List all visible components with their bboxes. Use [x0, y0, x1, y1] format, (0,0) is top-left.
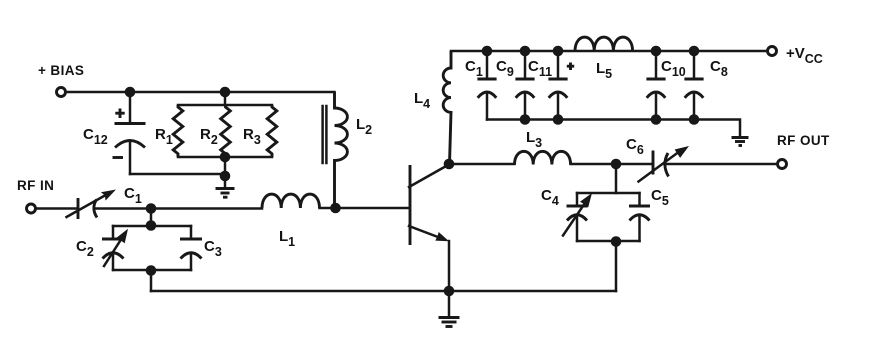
capacitor C9	[515, 51, 534, 120]
wire bank bottom rail	[487, 120, 740, 137]
capacitor C10	[646, 51, 665, 120]
inductor L1	[262, 194, 320, 208]
node bias/C12 junction	[125, 87, 136, 98]
wire R bottom to ground junction	[224, 157, 227, 176]
node C11 top	[553, 46, 564, 57]
capacitor C1 bypass	[477, 51, 496, 120]
wire R network bottom rail	[178, 156, 272, 159]
node RF line tap	[146, 203, 157, 214]
ground G1	[216, 176, 235, 197]
resistor R3	[267, 105, 277, 157]
node C9 top	[520, 46, 531, 57]
terminal +VCC	[768, 47, 777, 56]
node collector	[444, 159, 455, 170]
node C2C3 bottom	[146, 265, 157, 276]
terminal RF OUT	[778, 160, 787, 169]
capacitor C12	[113, 92, 146, 174]
node R bottom	[220, 152, 231, 163]
wire C6 to RF OUT	[666, 163, 778, 166]
capacitor C6 variable	[639, 146, 690, 182]
wire tap to box	[150, 209, 153, 227]
capacitor C2 variable	[102, 226, 128, 270]
ground G3	[732, 138, 749, 146]
node output tap	[611, 159, 622, 170]
node ground junction	[220, 171, 231, 182]
capacitor C8	[684, 51, 703, 120]
node C10 bottom	[651, 114, 662, 125]
wire C12 to ground junction	[130, 173, 225, 176]
terminal +BIAS	[57, 88, 66, 97]
inductor L4	[443, 51, 451, 164]
node L2/L1/base junction	[330, 203, 341, 214]
wire R2 top stem	[224, 92, 227, 105]
capacitor C1 input variable	[67, 190, 117, 220]
wire L1 to base	[320, 207, 409, 210]
transistor Q1	[409, 165, 449, 245]
svg-text:RF OUT: RF OUT	[777, 133, 830, 148]
node C10 top	[651, 46, 662, 57]
node C9 bottom	[520, 114, 531, 125]
wire R network top rail	[178, 104, 272, 107]
wire Vcc rail	[451, 50, 768, 53]
node emitter ground junction	[444, 286, 455, 297]
wire C2C3 bottom rail	[113, 269, 191, 272]
wire tap drop	[615, 164, 618, 193]
terminal RF IN	[27, 204, 36, 213]
svg-text:+ BIAS: + BIAS	[38, 63, 84, 78]
wire box bottom drop	[150, 271, 153, 292]
wire RF IN lead	[36, 207, 78, 210]
wire L3 to C6	[571, 163, 653, 166]
wire bottom ground rail	[151, 290, 616, 293]
wire emitter drop	[448, 241, 451, 291]
resistor R2	[221, 105, 231, 157]
wire C4C5 bottom drop	[615, 242, 618, 292]
wire collector line	[449, 163, 515, 166]
ground G2	[439, 291, 460, 327]
wire bias rail	[66, 91, 335, 94]
wire C4C5 top rail	[577, 192, 640, 195]
wire C4C5 bottom rail	[577, 240, 640, 243]
node C8 top	[689, 46, 700, 57]
node C11 bottom	[553, 114, 564, 125]
wire C1 to tap node	[95, 207, 263, 210]
node C2C3 box top	[146, 220, 157, 231]
inductor L2	[323, 92, 348, 207]
node C4C5 bottom	[611, 236, 622, 247]
capacitor C4 variable	[563, 193, 592, 241]
wire C2C3 top rail	[113, 225, 191, 228]
capacitor C3	[180, 226, 202, 270]
node C8 bottom	[689, 114, 700, 125]
svg-text:RF IN: RF IN	[17, 178, 54, 193]
node bias/R2 junction	[220, 87, 231, 98]
capacitor C5	[629, 193, 650, 241]
inductor L5	[575, 37, 633, 51]
inductor L3	[515, 151, 571, 164]
resistor R1	[173, 105, 183, 157]
node C1 bypass top	[482, 46, 493, 57]
capacitor C11	[548, 51, 574, 120]
